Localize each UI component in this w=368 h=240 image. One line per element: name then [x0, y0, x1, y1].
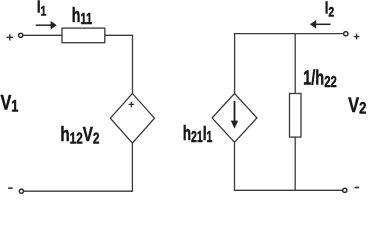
plus terminal mark top-right	[354, 34, 360, 40]
wire source2 bottom vertical	[234, 142, 236, 190]
label I2	[325, 0, 335, 20]
top-right horizontal wire	[234, 33, 344, 35]
label h21I1	[183, 123, 213, 146]
terminal port 2 top (open circle)	[344, 32, 348, 36]
svg-text:I2: I2	[325, 0, 335, 20]
terminal port 1 bottom (open circle)	[19, 189, 23, 193]
wire source bottom down	[131, 143, 133, 191]
minus terminal mark bottom-left	[8, 187, 12, 189]
label V1	[0, 91, 18, 116]
dependent current source h21I1 (diamond)	[212, 94, 257, 143]
label h12V2	[60, 123, 99, 147]
wire resistor bottom down	[294, 137, 296, 190]
label h11	[72, 4, 93, 27]
dependent voltage source h12V2 (diamond)	[110, 94, 154, 144]
label 1/h22	[303, 66, 337, 90]
wire down to resistor 1/h22	[294, 34, 296, 94]
terminal port 1 top (open circle)	[19, 33, 23, 37]
current arrow I2	[310, 20, 331, 29]
resistor h11	[62, 28, 105, 43]
label I1	[37, 0, 47, 19]
svg-text:I1: I1	[37, 0, 47, 19]
resistor 1/h22	[290, 94, 302, 138]
wire top-left to resistor	[23, 34, 62, 36]
minus terminal mark bottom-right	[355, 187, 359, 189]
terminal port 2 bottom (open circle)	[343, 188, 347, 192]
plus terminal mark top-left	[7, 34, 13, 40]
wire source2 top vertical	[234, 33, 236, 94]
bottom-left wire	[24, 190, 133, 192]
arrow inside current source	[231, 101, 238, 129]
wire resistor to corner	[105, 34, 133, 36]
current arrow I1	[36, 21, 57, 30]
bottom-right wire	[234, 189, 343, 191]
wire corner down to source top	[132, 35, 134, 94]
plus sign inside source	[129, 102, 135, 108]
label V2	[348, 93, 366, 118]
